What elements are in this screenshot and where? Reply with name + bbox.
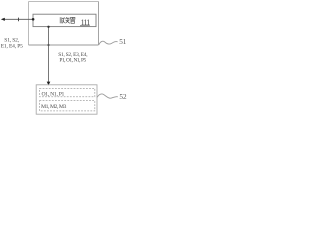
outer module box 51 (top) [29,2,99,46]
junction dot at box B [32,18,35,21]
svg-text:M1, M2, M3: M1, M2, M3 [41,104,66,110]
wire down from transceiver [48,27,50,83]
leader squiggle 51 [99,41,118,45]
junction dot on box A bottom [47,44,49,46]
antenna arrow line (left) [4,18,34,20]
dashed box O1,N1,P1 [40,88,95,96]
dashed box M1,M2,M3 [40,101,95,111]
svg-text:P1, O1, N1, P5: P1, O1, N1, P5 [59,57,86,63]
leader squiggle 52 [97,94,118,98]
arrowhead down into bottom box [47,82,51,86]
junction dot on box B bottom [47,26,49,28]
tick on arrow line [18,18,20,22]
transceiver box 111 [33,14,96,26]
bottom module box 52 [36,85,97,114]
svg-text:52: 52 [119,93,127,101]
arrowhead left [1,18,5,21]
svg-text:O1, N1, P1: O1, N1, P1 [42,91,65,97]
svg-text:51: 51 [119,38,127,46]
text 收发器 (glyph blobs) [60,17,75,23]
svg-text:E1, E4, P5: E1, E4, P5 [1,43,23,49]
